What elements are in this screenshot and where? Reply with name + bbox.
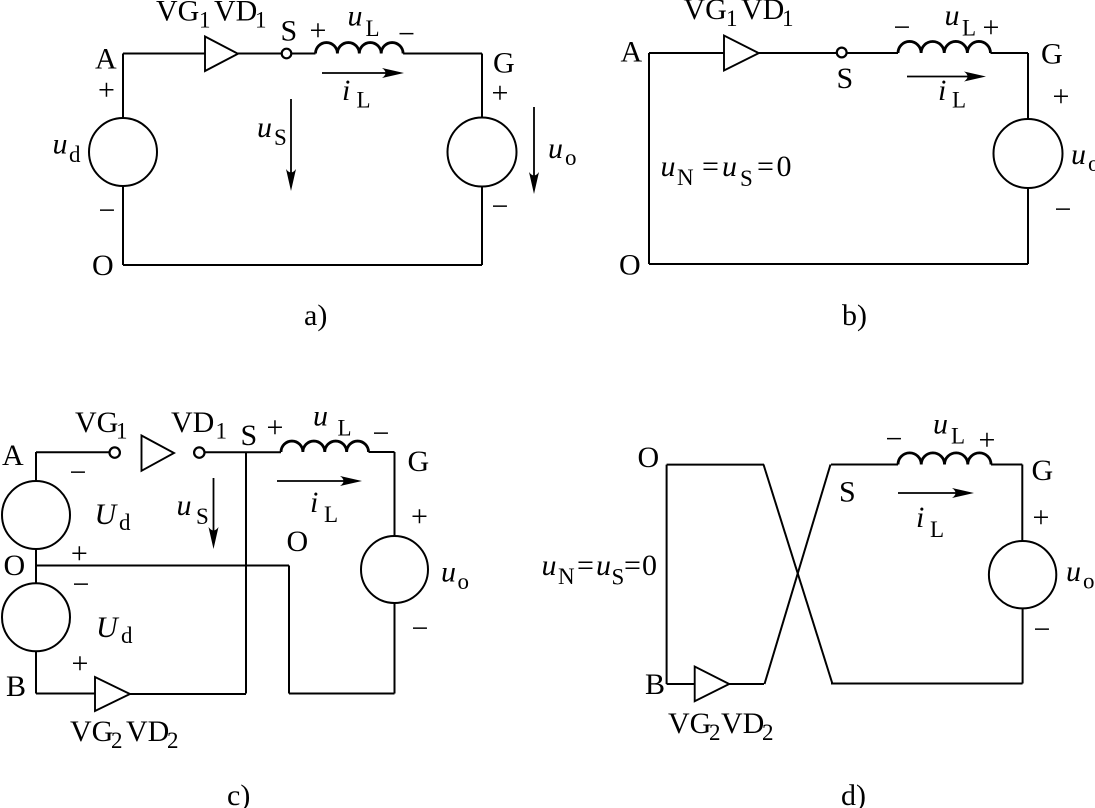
svg-text:u: u: [661, 150, 676, 183]
svg-text:1: 1: [782, 6, 794, 31]
label i_L b: [938, 74, 966, 113]
label u_o d: [1066, 555, 1095, 594]
top wire S to inductor d: [831, 464, 898, 466]
O step vertical c: [288, 566, 290, 694]
source u_o a: [448, 118, 517, 187]
svg-text:u: u: [945, 0, 960, 32]
inductor L d: [898, 453, 991, 465]
label VG1VD1 b: [684, 0, 794, 31]
svg-text:=: =: [702, 150, 719, 183]
bottom right wire d: [831, 683, 1023, 685]
svg-text:+: +: [267, 411, 284, 444]
svg-text:u: u: [933, 408, 948, 441]
svg-text:VD: VD: [214, 0, 257, 28]
wire S to inductor b: [847, 52, 898, 54]
label - uL + d: [886, 408, 996, 457]
wire inductor to G c: [369, 451, 395, 453]
source U_d lower c: [2, 583, 70, 651]
svg-text:VG: VG: [668, 707, 711, 740]
wire VD1 to S b: [759, 52, 837, 54]
thyristor triangle c top: [142, 436, 175, 471]
svg-text:−: −: [886, 423, 903, 456]
top wire O d: [667, 464, 764, 466]
svg-text:G: G: [493, 47, 515, 80]
svg-text:u: u: [257, 111, 272, 144]
terminal circle VG1 c: [110, 447, 120, 457]
arrow i_L d: [898, 488, 974, 498]
wire source to O a: [122, 186, 124, 265]
svg-text:+: +: [979, 424, 996, 457]
wire VD1 to S a: [238, 53, 282, 55]
svg-text:+: +: [98, 74, 115, 107]
wire S to inductor a: [291, 53, 315, 55]
svg-text:u: u: [313, 400, 328, 433]
diagonal O to bottom right d: [764, 465, 833, 685]
bottom wire B to VG2 d: [667, 683, 695, 685]
svg-text:A: A: [95, 43, 117, 76]
svg-text:2: 2: [762, 720, 774, 745]
svg-text:i: i: [342, 74, 350, 107]
label VG2VD2 c: [70, 715, 179, 753]
svg-text:0: 0: [777, 150, 792, 183]
inductor L c: [281, 441, 369, 452]
svg-text:−: −: [70, 456, 87, 489]
svg-text:+: +: [1053, 80, 1070, 113]
svg-text:L: L: [338, 416, 352, 441]
arrow u_S a: [286, 99, 296, 191]
svg-text:u: u: [722, 150, 737, 183]
label u_d a: [53, 128, 82, 168]
arrow u_o a: [529, 107, 539, 194]
label uN=uS=0 b: [661, 150, 792, 191]
svg-text:U: U: [96, 611, 120, 644]
wire A to VG1 terminal c: [36, 451, 110, 453]
svg-text:1: 1: [199, 8, 211, 33]
wire inductor to G d: [991, 464, 1022, 466]
source u_d a: [89, 118, 157, 186]
arrow i_L b: [907, 72, 986, 82]
svg-text:=: =: [577, 549, 594, 582]
svg-text:S: S: [241, 419, 258, 452]
svg-text:+: +: [411, 500, 428, 533]
svg-text:B: B: [6, 670, 26, 703]
svg-text:i: i: [938, 74, 946, 107]
wire inductor to G b: [991, 52, 1029, 54]
wire source to bottom a: [481, 187, 483, 266]
source u_o c: [361, 536, 428, 603]
svg-text:−: −: [492, 190, 509, 223]
svg-text:O: O: [287, 525, 309, 558]
svg-text:u: u: [542, 549, 557, 582]
svg-text:1: 1: [255, 8, 267, 33]
node S circle b: [837, 48, 847, 58]
bottom wire b: [649, 263, 1028, 265]
wire G down b: [1027, 53, 1029, 119]
svg-text:U: U: [95, 498, 119, 531]
svg-text:+: +: [1033, 501, 1050, 534]
svg-text:VG: VG: [156, 0, 199, 28]
svg-text:d): d): [841, 779, 866, 808]
svg-text:0: 0: [642, 549, 657, 582]
svg-text:A: A: [2, 439, 24, 472]
svg-text:L: L: [366, 16, 380, 41]
svg-text:S: S: [281, 15, 298, 48]
label u_S c: [177, 489, 209, 529]
svg-text:−: −: [412, 612, 429, 645]
svg-text:VD: VD: [171, 406, 214, 439]
bottom wire VD2 to diagonal d: [729, 683, 764, 685]
svg-text:+: +: [492, 77, 509, 110]
label i_L a: [342, 74, 371, 113]
label u_o c: [441, 556, 469, 595]
wire A to VG1VD1: [123, 53, 205, 55]
label VD1 c: [171, 406, 227, 444]
wire G down c: [394, 452, 396, 536]
wire source to bottom c: [394, 603, 396, 694]
thyristor VG1VD1 b: [724, 36, 759, 71]
svg-text:S: S: [837, 62, 854, 95]
thyristor VG2VD2 c: [95, 677, 130, 711]
source u_o b: [994, 119, 1063, 188]
svg-text:O: O: [4, 549, 26, 582]
svg-text:A: A: [621, 36, 643, 69]
svg-text:2: 2: [709, 720, 721, 745]
svg-text:N: N: [677, 165, 694, 190]
arrow u_S c: [209, 478, 219, 549]
svg-text:1: 1: [116, 419, 128, 444]
svg-text:S: S: [740, 166, 753, 191]
arrow i_L c: [277, 476, 362, 486]
svg-text:N: N: [558, 564, 575, 589]
label - uL + b: [894, 0, 1000, 44]
svg-text:i: i: [310, 486, 318, 519]
wire lower source to B c: [35, 651, 37, 693]
arrow i_L a: [322, 68, 404, 78]
svg-text:d: d: [119, 510, 131, 535]
svg-text:S: S: [274, 125, 287, 150]
svg-text:G: G: [1041, 38, 1063, 71]
label uN=uS=0 d: [542, 549, 658, 590]
svg-text:2: 2: [111, 728, 123, 753]
svg-text:VD: VD: [721, 707, 764, 740]
label u_o a: [548, 132, 577, 170]
svg-text:+: +: [72, 647, 89, 680]
svg-text:S: S: [612, 565, 625, 590]
svg-text:u: u: [1066, 555, 1081, 588]
label u_S a: [257, 111, 287, 150]
svg-text:1: 1: [216, 419, 228, 444]
bottom wire B to VG2 c: [36, 693, 95, 695]
svg-text:d: d: [69, 142, 81, 167]
svg-text:−: −: [1055, 193, 1072, 226]
label i_L d: [916, 501, 944, 542]
svg-text:L: L: [951, 424, 965, 449]
svg-text:u: u: [596, 549, 611, 582]
svg-text:L: L: [962, 16, 976, 41]
svg-text:u: u: [348, 0, 363, 33]
label + uL a: [310, 0, 415, 50]
source u_o d: [989, 541, 1056, 608]
svg-text:L: L: [357, 88, 371, 113]
svg-text:G: G: [408, 445, 430, 478]
svg-text:d: d: [121, 623, 133, 648]
O step bottom wire c: [289, 693, 395, 695]
svg-text:L: L: [324, 502, 338, 527]
svg-text:o: o: [1083, 569, 1095, 594]
svg-text:o: o: [1088, 151, 1095, 176]
bottom wire VD2 to S vertical c: [130, 693, 246, 695]
svg-text:VG: VG: [684, 0, 727, 26]
svg-text:O: O: [92, 249, 114, 282]
terminal circle VD1 c: [194, 447, 204, 457]
svg-text:O: O: [638, 441, 660, 474]
wire upper source to O c: [35, 549, 37, 583]
left wire d: [666, 465, 668, 684]
label + uL - c: [267, 400, 390, 451]
S junction vertical wire c: [245, 452, 247, 694]
bottom wire a: [123, 264, 482, 266]
diagonal B to S d: [765, 465, 831, 685]
svg-text:b): b): [842, 299, 867, 332]
svg-text:=: =: [624, 549, 641, 582]
label VG2VD2 d: [668, 707, 774, 745]
wire A down c: [35, 452, 37, 481]
svg-text:O: O: [619, 249, 641, 282]
inductor L b: [898, 41, 990, 53]
svg-text:u: u: [441, 556, 456, 589]
label u_o b: [1071, 138, 1095, 176]
svg-text:u: u: [548, 132, 563, 165]
svg-text:L: L: [930, 517, 944, 542]
wire source to bottom b: [1027, 188, 1029, 264]
svg-text:=: =: [757, 150, 774, 183]
left wire b: [648, 53, 650, 264]
wire VD1 to inductor c: [204, 451, 281, 453]
thyristor VG1VD1 a: [205, 37, 238, 72]
svg-text:−: −: [73, 568, 90, 601]
label i_L c: [310, 486, 338, 527]
svg-text:G: G: [1032, 454, 1054, 487]
svg-text:VG: VG: [70, 715, 113, 748]
source U_d upper c: [2, 481, 70, 549]
svg-text:−: −: [373, 417, 390, 450]
label U_d upper c: [95, 498, 132, 535]
node S circle a: [282, 49, 292, 59]
svg-text:1: 1: [726, 6, 738, 31]
svg-text:o: o: [458, 569, 470, 594]
svg-text:−: −: [894, 11, 911, 44]
wire source to bottom d: [1022, 608, 1024, 683]
label VG1VD1 a: [156, 0, 267, 33]
svg-text:−: −: [99, 194, 116, 227]
svg-text:S: S: [196, 504, 209, 529]
svg-text:i: i: [916, 501, 924, 534]
svg-text:+: +: [310, 14, 327, 47]
svg-text:VG: VG: [75, 406, 118, 439]
svg-text:VD: VD: [741, 0, 784, 26]
middle O wire c: [36, 565, 289, 567]
svg-text:−: −: [398, 17, 415, 50]
wire A to VG1VD1 b: [649, 52, 724, 54]
svg-text:u: u: [177, 489, 192, 522]
svg-text:u: u: [1071, 138, 1086, 171]
wire G down a: [481, 54, 483, 118]
label VG1 c: [75, 406, 128, 444]
inductor L a: [316, 43, 404, 54]
svg-text:B: B: [645, 668, 665, 701]
svg-text:o: o: [565, 145, 577, 170]
svg-text:2: 2: [167, 728, 179, 753]
wire A down a: [122, 54, 124, 119]
thyristor VG2VD2 d: [695, 667, 730, 702]
svg-text:S: S: [839, 476, 856, 509]
svg-text:−: −: [1034, 613, 1051, 646]
label U_d lower c: [96, 611, 133, 648]
svg-text:c): c): [227, 779, 250, 808]
svg-text:L: L: [952, 88, 966, 113]
wire G down d: [1021, 465, 1023, 542]
wire inductor to G a: [403, 53, 482, 55]
svg-text:u: u: [53, 128, 68, 161]
svg-text:VD: VD: [126, 715, 169, 748]
svg-text:+: +: [983, 11, 1000, 44]
svg-text:a): a): [304, 299, 327, 332]
